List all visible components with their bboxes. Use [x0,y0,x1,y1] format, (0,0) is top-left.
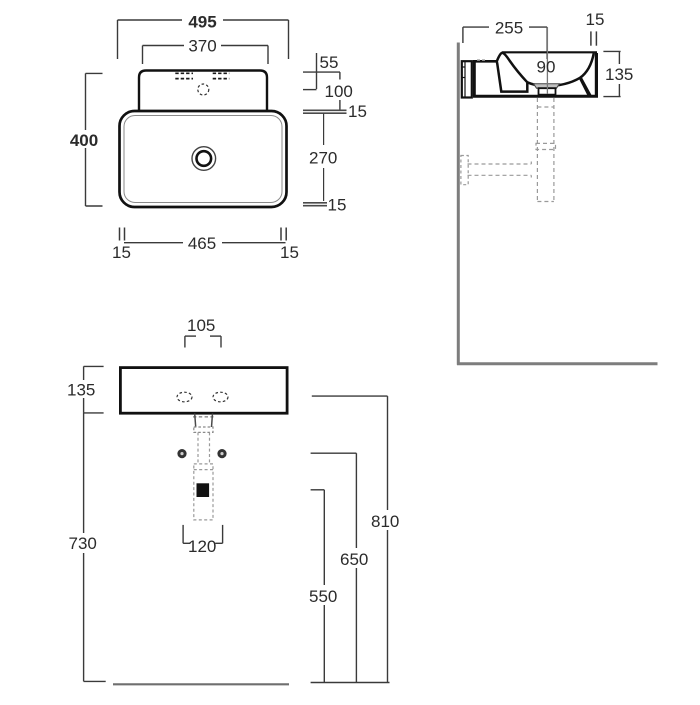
drain pipe dashed (side) [537,98,554,202]
dim 15 double line (bottom right of plan) [303,203,327,206]
dim 100 leader [339,100,341,110]
drain pipe top (front) [195,414,213,428]
basin body (plan, rounded rect) [120,111,287,207]
dim 255 line [463,27,547,59]
basin side front wall foot [579,78,592,96]
dim 370 label [184,37,221,56]
wall flange dashed (side) [461,156,468,185]
drain tailpipe (side) [539,88,556,94]
pipe nut (front) [194,427,213,432]
dim 400 line [86,73,103,206]
svg-text:15: 15 [280,243,299,262]
centreline (side, grey) [546,27,548,94]
svg-text:495: 495 [188,13,216,32]
dim 810 line [312,396,388,682]
basin side bottom line [473,95,598,98]
basin body inner rim line [124,116,282,203]
dim 15 double line (top right of plan) [303,110,347,113]
p-trap horizontal pipe dashed (side) [468,162,532,178]
svg-text:730: 730 [69,534,97,553]
trap body dashed (front) [194,464,213,520]
floor line (front, grey) [113,683,289,685]
bolt hole right (front) [217,449,226,458]
basin side deck top edge [473,60,498,63]
svg-text:15: 15 [586,10,605,29]
svg-text:100: 100 [325,82,353,101]
bolt hole left (front) [177,449,186,458]
drain inner ring (plan) [197,151,212,166]
dim 465 line [124,242,286,244]
svg-text:105: 105 [187,316,215,335]
dim 550 line [311,490,325,683]
faucet hole dashed left (front) [177,392,192,402]
wall line (grey) [457,43,460,365]
faucet hole slot right (dashed) [213,73,230,78]
dim 495 label [182,12,223,32]
dim 55 lines [303,53,340,89]
dim 120 bracket [183,525,223,543]
dim 465 label [183,234,222,253]
dim 400 label [66,130,103,150]
svg-text:135: 135 [67,381,95,400]
basin side right wall [595,53,598,96]
basin front rect [120,368,287,414]
svg-text:120: 120 [188,537,216,556]
basin side left wall [473,61,476,96]
svg-text:255: 255 [495,19,523,38]
svg-text:465: 465 [188,234,216,253]
dim 15 double tick bottom-left [120,228,125,241]
dim 270 line [323,114,325,202]
dim 135 line (side) [603,51,620,96]
pipe flange dashes under basin (front) [193,416,214,418]
dims bottom tick line [311,682,390,684]
drain outer ring (plan) [192,147,216,171]
svg-text:810: 810 [371,512,399,531]
drain fitting (side, hatched) [534,84,560,89]
dim 650 line [311,453,357,682]
deck faucet dash (side) [477,59,486,61]
dim 255 label [489,19,529,38]
dim 100 tick [303,89,317,91]
dim 730 line [84,413,106,682]
svg-text:90: 90 [537,58,556,77]
svg-text:650: 650 [340,550,368,569]
faucet hole slot left (dashed) [175,73,193,78]
dim 105 bracket [185,336,221,347]
svg-text:15: 15 [328,196,347,215]
svg-text:15: 15 [348,102,367,121]
svg-text:55: 55 [320,53,339,72]
dim 15 double tick (side top) [591,31,597,45]
basin deck (plan) [139,71,267,112]
dim 15 double tick bottom-right [281,228,286,241]
bowl interior curve (side) [527,53,594,86]
dim 135 line (front) [84,366,104,413]
pipe clamp black square (front) [197,483,210,497]
floor line (grey) [457,362,658,365]
svg-text:550: 550 [309,587,337,606]
pipe nut dashed (side) [536,143,556,149]
mounting bracket (side) [462,61,472,97]
svg-text:370: 370 [188,37,216,56]
svg-text:400: 400 [70,131,98,150]
svg-text:15: 15 [112,243,131,262]
dim 495 line [118,20,289,59]
svg-text:270: 270 [309,149,337,168]
faucet hole dashed right (front) [213,392,228,402]
svg-text:135: 135 [605,65,633,84]
dim 370 line [143,46,269,65]
bowl back wall (side section) [497,53,528,92]
basin top rim line (side) [502,51,597,53]
faucet hole circle (dashed) [198,84,209,95]
drain pipe taper dashed (front) [198,432,210,464]
